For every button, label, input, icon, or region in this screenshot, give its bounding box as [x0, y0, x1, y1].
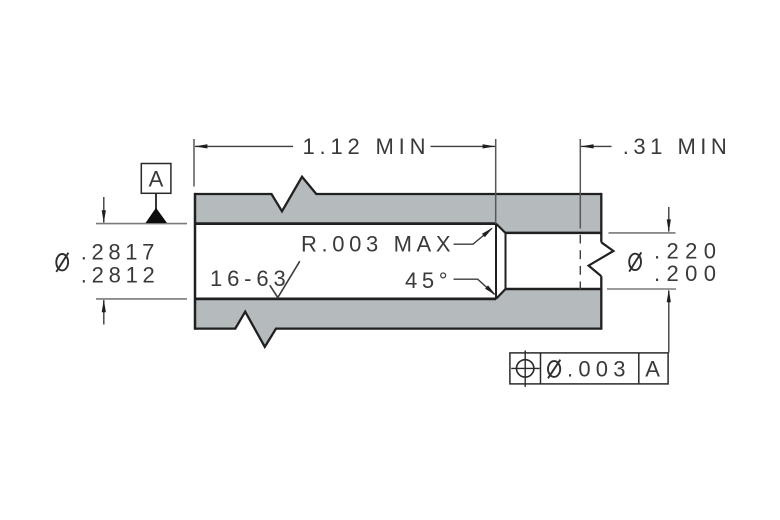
small bore bottom line — [506, 288, 602, 291]
extension line for .31 dim — [579, 139, 581, 229]
tolerance text — [548, 360, 560, 379]
counterbore top line — [195, 222, 496, 225]
bore diameter top arrow — [103, 197, 105, 223]
arrow right of 1.12 — [483, 144, 496, 148]
svg-text:.2812: .2812 — [81, 262, 155, 287]
svg-text:A: A — [149, 167, 164, 192]
top edge with break line — [195, 177, 601, 212]
feature control frame — [510, 353, 668, 384]
right edge lower segment — [600, 276, 602, 330]
extension line top of bore diameter — [96, 223, 187, 225]
svg-text:R.003 MAX: R.003 MAX — [301, 232, 451, 257]
frame divider 1 — [540, 353, 542, 384]
chamfer bottom diagonal — [496, 289, 506, 299]
arrow of .31 — [581, 144, 594, 148]
svg-text:A: A — [645, 357, 660, 382]
dimension line .31 — [581, 145, 612, 147]
surface finish mark — [270, 261, 300, 297]
leader for R.003 MAX — [454, 229, 492, 245]
part section upper half (gray fill) — [195, 177, 601, 233]
leader for 45 degree chamfer — [454, 279, 495, 294]
right edge upper segment — [600, 193, 602, 242]
chamfer end vertical — [505, 233, 507, 289]
small hole bottom arrow with leader to control frame — [668, 291, 670, 353]
extension line left of 1.12 dim — [193, 139, 195, 187]
svg-text:45°: 45° — [405, 268, 448, 293]
diameter symbol left — [56, 253, 68, 272]
counterbore bottom line — [195, 298, 496, 301]
frame divider 2 — [638, 353, 640, 384]
extension line right of 1.12 dim — [495, 139, 497, 224]
chamfer top diagonal — [496, 224, 506, 233]
part section lower half (gray fill) — [195, 289, 601, 347]
datum triangle — [146, 208, 168, 223]
extension line bottom of bore diameter — [96, 298, 187, 300]
diameter symbol right — [629, 252, 641, 271]
left edge — [194, 193, 197, 330]
right edge break zigzag — [589, 242, 614, 276]
svg-text:.2817: .2817 — [81, 239, 155, 264]
dimension line 1.12 left segment — [195, 145, 293, 147]
hidden depth dashed line — [579, 235, 581, 290]
extension line bottom of small hole — [607, 288, 676, 290]
small bore top line — [506, 232, 602, 235]
bottom edge with break line — [195, 312, 601, 347]
svg-text:16-63: 16-63 — [210, 266, 286, 291]
datum A box — [141, 164, 171, 194]
extension line top of small hole — [609, 232, 676, 234]
dimension line 1.12 right segment — [431, 145, 496, 147]
true position symbol — [517, 360, 534, 377]
datum stem — [155, 193, 157, 209]
small hole top arrow — [668, 207, 670, 232]
chamfer start vertical — [495, 224, 497, 299]
arrow left of 1.12 — [195, 144, 208, 148]
bore diameter bottom arrow — [103, 300, 105, 325]
